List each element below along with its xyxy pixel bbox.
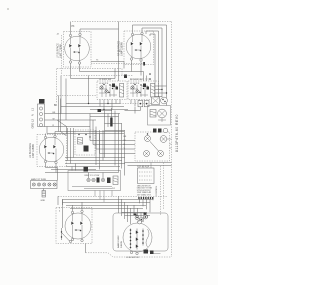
thermal cutout box TCO	[68, 171, 121, 191]
sensor lead (dashed)	[61, 35, 63, 76]
surface unit RF enclosure (dashed)	[124, 31, 154, 65]
wire run y169.5	[51, 169, 96, 171]
wires RR bottom	[46, 163, 58, 173]
svg-text:BK: BK	[54, 104, 58, 107]
surface unit RF	[126, 32, 151, 61]
drops into motor connector	[134, 205, 148, 218]
wire feed down to switch SW1	[118, 22, 120, 82]
svg-text:W: W	[53, 118, 55, 120]
wire N	[45, 119, 97, 121]
door switch enclosure (dashed)	[56, 208, 92, 244]
svg-text:BK: BK	[124, 136, 127, 138]
surface unit RR enclosure (dashed)	[37, 135, 67, 167]
wires unit top	[63, 199, 83, 228]
wire TB to long run	[47, 127, 124, 134]
door switch lever	[62, 228, 70, 241]
svg-text:UNIT 2350W: UNIT 2350W	[121, 41, 124, 56]
harness bundle row 4	[66, 204, 146, 206]
wires under receptacle	[125, 163, 172, 166]
svg-text:4: 4	[59, 211, 61, 213]
svg-text:CONTROL: CONTROL	[156, 185, 158, 196]
surface unit LF	[65, 33, 90, 64]
wire unit bottom	[85, 244, 87, 253]
wire bus y106.5	[61, 106, 124, 108]
switch SW1 drops	[100, 100, 120, 110]
svg-text:2: 2	[59, 208, 61, 210]
receptacle box enclosure	[135, 132, 170, 161]
harness drops	[140, 200, 154, 213]
wire bus y116.5	[90, 116, 119, 118]
lamp switch pair	[138, 101, 149, 107]
wire LF bottom drops	[71, 63, 144, 78]
wire bus y78	[71, 78, 116, 80]
wire bus y130.5	[105, 130, 126, 132]
oven door unit	[65, 210, 91, 241]
lamp leads	[158, 118, 166, 122]
wires RR top	[46, 132, 56, 137]
svg-text:W: W	[124, 140, 126, 142]
receptacle R1	[145, 133, 151, 141]
control board pin rows	[137, 185, 153, 196]
motor enclosure (rounded box)	[113, 213, 168, 251]
svg-text:8113P476-60 REV0: 8113P476-60 REV0	[175, 114, 179, 152]
wire left riser 2	[65, 79, 67, 121]
wire bus y123.5	[105, 123, 123, 125]
wire run y131.5	[55, 131, 124, 133]
svg-text:BAKE ELEM: BAKE ELEM	[117, 235, 120, 248]
wire bus y109.5	[90, 109, 128, 111]
svg-text:N: N	[31, 114, 35, 116]
svg-text:L1: L1	[31, 108, 35, 111]
wire to motor enclosure (dashed)	[86, 253, 172, 257]
ground strip G1	[31, 181, 58, 189]
wire left riser 3	[88, 76, 90, 104]
stray mark top left	[7, 8, 9, 10]
svg-text:P3: P3	[72, 26, 76, 28]
stub v115	[114, 69, 116, 79]
wire L2	[45, 126, 91, 128]
wire L1	[45, 113, 121, 115]
infinite switch SW1	[99, 79, 124, 97]
dashed risers right of board	[161, 163, 164, 216]
harness left corners	[58, 196, 63, 205]
surface unit RR	[39, 135, 64, 163]
infinite switch SW1 enclosure	[97, 81, 127, 100]
TCO feed wires	[72, 164, 103, 179]
junction dots	[161, 89, 162, 90]
wire RR to ground strip	[57, 168, 59, 181]
svg-text:J2: J2	[57, 34, 60, 36]
oven thermostat	[78, 134, 91, 152]
wire dashed y79	[130, 78, 149, 80]
harness right corner drops	[119, 196, 131, 224]
wires SW2 to right bus	[155, 86, 167, 97]
wire link units y61.5	[91, 61, 124, 63]
svg-text:75: 75	[96, 60, 99, 62]
dashed feed to SW1	[57, 95, 97, 97]
svg-text:LF SURF SW: LF SURF SW	[99, 79, 111, 81]
svg-text:MAIN TOP TERM: MAIN TOP TERM	[31, 178, 46, 181]
harness bundle row 2	[63, 198, 154, 200]
bus rows mid	[65, 158, 125, 167]
label P1 dark	[39, 99, 45, 104]
harness lower rows	[122, 212, 151, 215]
wires receptacle to border	[167, 139, 172, 148]
receptacle jumper	[150, 142, 159, 152]
TCO bottom stubs	[95, 191, 112, 203]
wire right bus 3	[161, 28, 163, 97]
dark component	[84, 167, 89, 172]
wire LF top to cabinet	[70, 22, 72, 35]
harness bundle row 1 (dashed)	[58, 195, 168, 197]
oven light box	[148, 106, 171, 126]
svg-text:GRD: GRD	[41, 200, 46, 202]
receptacle R3	[144, 151, 150, 157]
harness bundle row 3	[63, 201, 151, 203]
wire LF top right	[80, 29, 119, 33]
switch SW2 drops	[131, 100, 139, 107]
wire right bus 1	[154, 34, 156, 97]
terminal block P1	[38, 104, 45, 127]
thermostat left risers	[68, 128, 74, 164]
wire dashed y68.5	[57, 69, 123, 104]
svg-text:L2: L2	[31, 119, 35, 122]
wire diagonal N to unit	[57, 120, 67, 135]
ground lead	[43, 189, 45, 191]
oven thermostat enclosure	[75, 130, 95, 155]
svg-text:UNIT 1250W: UNIT 1250W	[32, 143, 35, 158]
infinite switch SW2	[130, 79, 155, 97]
receptacle R4	[158, 151, 164, 157]
wire bus y103.5 dashed right	[120, 103, 152, 105]
stubs rows to board	[139, 163, 151, 169]
wire double riser	[59, 96, 61, 132]
wire dashed y63.5	[91, 63, 144, 65]
thick wire blob	[110, 118, 112, 127]
wire right bus 2	[158, 31, 160, 97]
door lock box DL	[152, 97, 160, 105]
motor connector cluster	[134, 213, 148, 224]
stub v124	[123, 62, 125, 69]
ground element	[42, 191, 46, 198]
svg-text:RF SURF SW: RF SURF SW	[130, 79, 143, 81]
wire riser jog	[61, 132, 67, 136]
control board block	[138, 168, 155, 184]
harness pins under board	[138, 197, 153, 200]
surface unit LF enclosure (dashed)	[64, 32, 92, 68]
wire long run y172.5	[45, 172, 119, 174]
wire RF bottom drops	[132, 60, 147, 81]
door lock circle	[161, 97, 168, 104]
motor M1	[123, 223, 152, 252]
thermostat right risers	[96, 130, 103, 170]
svg-text:OVEN TCO LT SW: OVEN TCO LT SW	[84, 175, 99, 177]
harness bundle row 5	[70, 207, 143, 209]
nest corner wires	[90, 114, 135, 154]
wire right bus 4	[166, 25, 168, 106]
svg-text:UNIT 1250W: UNIT 1250W	[60, 43, 63, 58]
svg-text:CONV MOTOR: CONV MOTOR	[126, 257, 140, 259]
motor bottom terminals	[144, 250, 149, 254]
nest right risers	[105, 108, 125, 176]
svg-text:GRD: GRD	[31, 123, 35, 129]
wire bus y75 (dashed)	[64, 75, 134, 77]
wire bus y110 short	[98, 110, 112, 112]
infinite switch SW2 enclosure	[128, 81, 159, 100]
svg-text:P4: P4	[112, 188, 115, 190]
wire left riser 1	[60, 76, 62, 114]
cabinet outline top (dashed wire)	[72, 21, 172, 23]
wire bus y103.5	[66, 103, 120, 105]
receptacle R2	[160, 136, 167, 143]
oven lamp	[158, 109, 167, 118]
wire under lamp switch	[125, 107, 141, 114]
relay row K1	[153, 128, 168, 133]
junctions	[103, 109, 104, 110]
wire RF top nested corners	[133, 25, 167, 36]
cabinet outline right (dashed wire)	[171, 22, 173, 258]
svg-text:3400W: 3400W	[121, 240, 123, 248]
